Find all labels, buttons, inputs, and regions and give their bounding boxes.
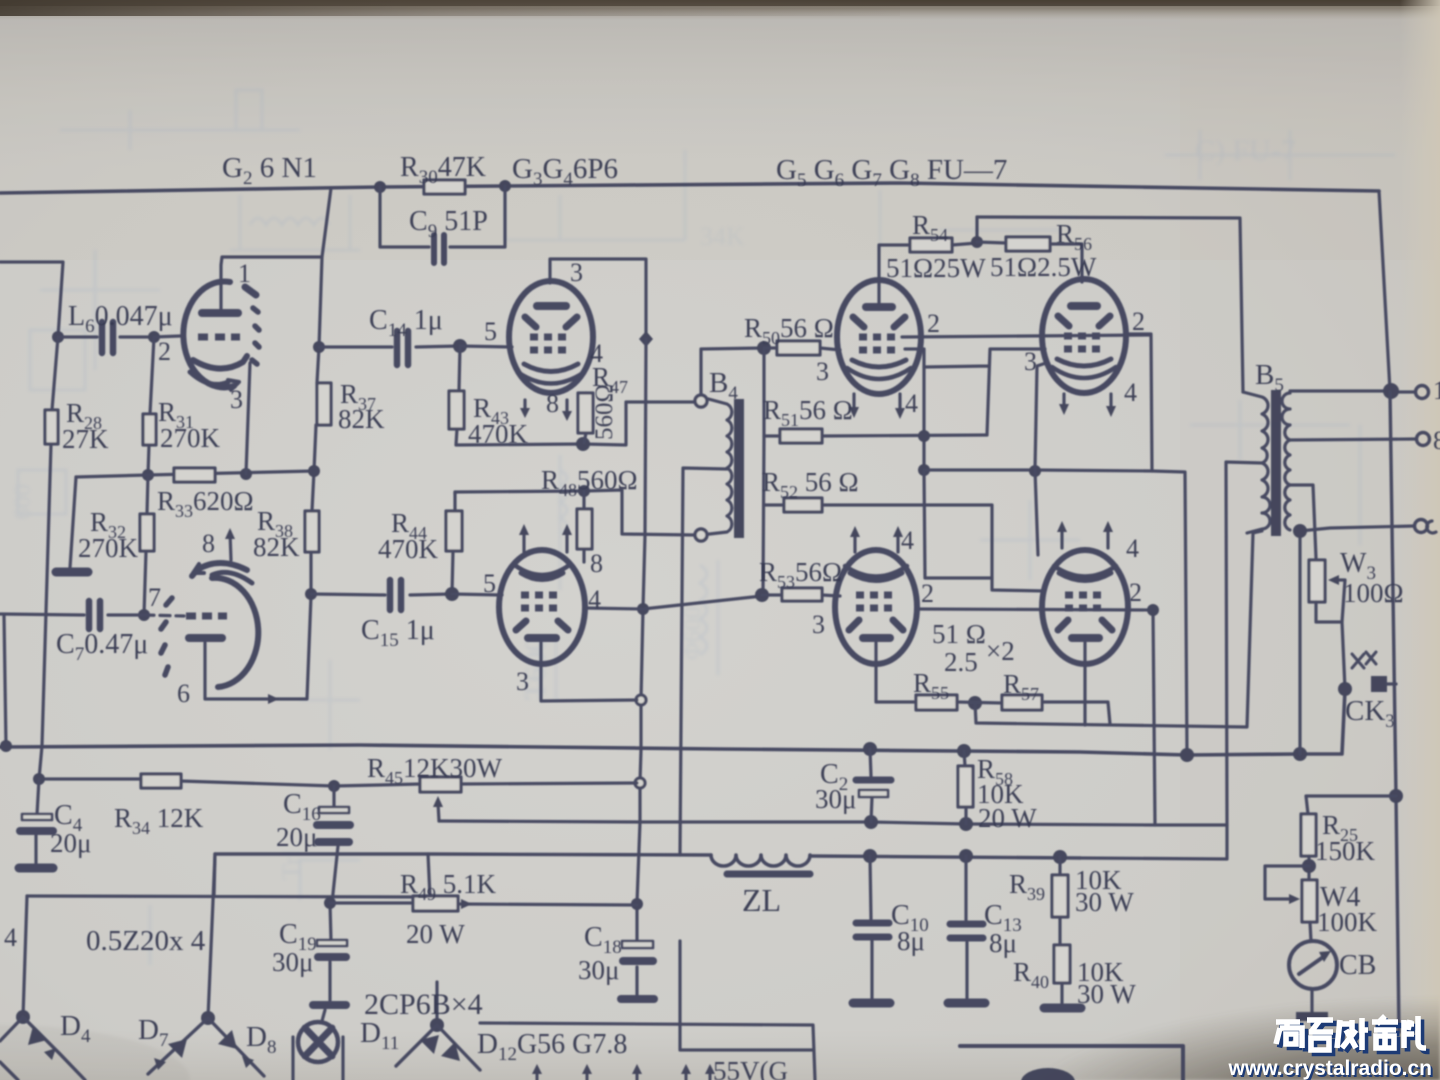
- svg-text:R5156 Ω: R5156 Ω: [763, 395, 853, 430]
- wire top HT bus: [0, 183, 1379, 193]
- svg-text:7: 7: [148, 583, 161, 612]
- svg-text:R49 5.1K: R49 5.1K: [400, 869, 497, 904]
- wire screen feed y218: [977, 217, 1243, 392]
- transformer B5 mid tap: [1226, 462, 1262, 825]
- resistor R50: [764, 348, 840, 350]
- node bus2b R58: [959, 817, 973, 831]
- node bus1 R58: [957, 744, 971, 758]
- wire R25 branch: [1306, 796, 1396, 814]
- node B5 output: [1383, 383, 1399, 399]
- node grid junction V1: [148, 331, 160, 343]
- svg-text:C15 1μ: C15 1μ: [361, 615, 435, 651]
- svg-text:1: 1: [238, 259, 251, 288]
- tube V6 FU-7: [1042, 550, 1128, 664]
- diode D11 node: [435, 982, 438, 1025]
- resistor R48: [582, 491, 585, 562]
- svg-text:2: 2: [921, 579, 934, 608]
- svg-text:2: 2: [1129, 578, 1142, 607]
- node B5 bottom tap: [1293, 524, 1307, 538]
- resistor R31: [143, 414, 156, 445]
- node L6 left junction: [52, 331, 64, 343]
- wire grid bus x765: [763, 348, 764, 595]
- wire V3 cathode leads with arrows: [854, 394, 900, 413]
- node bus1 C2: [863, 742, 877, 756]
- resistor R38: [305, 511, 319, 552]
- wire V3 screen drop x924: [905, 349, 924, 470]
- svg-text:27K: 27K: [62, 424, 109, 454]
- resistor R25: [1301, 814, 1316, 856]
- resistor R40: [1060, 983, 1063, 1003]
- ground C4: [19, 864, 53, 873]
- winding arrows bottom: [537, 1068, 710, 1080]
- node bus2b C2: [864, 815, 878, 829]
- wire bottom inner rail: [680, 941, 813, 1050]
- wire V1 plate lead and pin1 link: [221, 257, 322, 310]
- svg-text:3: 3: [816, 357, 829, 386]
- wire bias row with R33: [76, 471, 314, 477]
- svg-text:3: 3: [1024, 347, 1037, 376]
- resistor R55: [916, 695, 957, 710]
- wire rectifier top rail: [27, 854, 430, 897]
- wire bus3 HT rail: [215, 854, 1080, 858]
- svg-text:R52 56 Ω: R52 56 Ω: [762, 467, 859, 502]
- svg-text:3: 3: [812, 610, 825, 639]
- wire R28 chain down to bus2: [39, 337, 58, 779]
- svg-text:4: 4: [905, 389, 918, 418]
- node D7 D8: [201, 1011, 215, 1025]
- node V4 pin3 column junction: [1029, 465, 1041, 477]
- svg-text:2.5: 2.5: [944, 647, 978, 677]
- capacitor L6 0.047u: [58, 335, 154, 338]
- node small circle at V2b anode row: [636, 695, 646, 705]
- svg-text:8μ: 8μ: [989, 928, 1017, 958]
- svg-text:270K: 270K: [160, 423, 221, 453]
- svg-text:20μ: 20μ: [50, 828, 91, 858]
- lamp indicator: [298, 1022, 338, 1062]
- svg-text:8: 8: [202, 529, 215, 558]
- svg-text:8: 8: [546, 389, 559, 418]
- resistor R58: [964, 751, 966, 824]
- wire R44 R48 row: [455, 490, 695, 535]
- resistor R34: [141, 774, 181, 788]
- svg-text:51Ω2.5W: 51Ω2.5W: [990, 252, 1097, 282]
- wire V4 cathode leads with arrows: [1064, 394, 1111, 411]
- resistor R49: [413, 896, 458, 911]
- resistor R52: [764, 505, 1045, 591]
- svg-text:3: 3: [230, 385, 243, 414]
- transformer B5 primary winding: [1243, 392, 1270, 533]
- wire long B+ column x646: [637, 339, 646, 995]
- node junction at R30 right: [499, 180, 511, 192]
- transformer B5 core: [1271, 390, 1281, 536]
- wire B5 sec tap2 to terminal 8: [1290, 439, 1415, 440]
- node R31 bottom junction: [142, 469, 154, 481]
- node bus1 left: [0, 740, 12, 752]
- diode D7 branch: [148, 1018, 208, 1074]
- svg-text:30μ: 30μ: [815, 784, 856, 814]
- potentiometer W3: [1309, 560, 1325, 602]
- wire V2b grid: [452, 594, 502, 595]
- diode D fragment bottom left: [0, 1062, 18, 1080]
- capacitor C18 30u: [622, 941, 653, 948]
- svg-text:100K: 100K: [1317, 907, 1378, 937]
- wire bus2b wiper rail: [439, 821, 1227, 859]
- wire V6 pin2 drop: [1153, 610, 1155, 825]
- diode D11 branches: [396, 1025, 480, 1070]
- svg-text:30μ: 30μ: [272, 947, 313, 977]
- wire V4 pin3 column: [1035, 363, 1046, 555]
- tube V2 6P6: [509, 281, 593, 393]
- resistor R56: [977, 242, 1082, 282]
- capacitor C16 20u: [332, 786, 338, 903]
- svg-text:4: 4: [1126, 534, 1139, 563]
- svg-text:8μ: 8μ: [897, 926, 925, 956]
- tube V1b 6N1 lower triode: [161, 563, 258, 687]
- svg-text:www.crystalradio.cn: www.crystalradio.cn: [1228, 1057, 1432, 1080]
- svg-text:150K: 150K: [1315, 836, 1376, 866]
- wire rectifier mid drop: [208, 854, 215, 1018]
- svg-text:R33620Ω: R33620Ω: [157, 486, 254, 521]
- svg-text:G5 G6 G7 G8 FU—7: G5 G6 G7 G8 FU—7: [776, 154, 1007, 191]
- capacitor C13 8u: [966, 856, 967, 998]
- node ZL C10: [863, 849, 877, 863]
- wire rectifier left drop: [23, 896, 27, 1017]
- node C15 right junction: [445, 587, 459, 601]
- svg-text:30μ: 30μ: [578, 955, 619, 985]
- svg-text:2: 2: [158, 337, 171, 366]
- svg-text:4: 4: [588, 585, 601, 614]
- terminal 1: [1416, 386, 1429, 399]
- resistor R33: [174, 468, 215, 482]
- capacitor C9 loop: [380, 186, 505, 247]
- node C14 right junction: [453, 339, 467, 353]
- capacitor C19 30u: [322, 903, 331, 1021]
- wire V2b heater arrows: [524, 530, 567, 552]
- svg-text:8: 8: [590, 549, 603, 578]
- wire V5 V6 grid row: [917, 609, 1153, 610]
- svg-text:0.5Z20x 4: 0.5Z20x 4: [86, 925, 206, 957]
- wire B4 top to R50 node: [701, 348, 764, 395]
- terminal B4 bottom: [695, 529, 707, 541]
- wire R43 chain: [456, 346, 695, 445]
- svg-text:2: 2: [927, 309, 940, 338]
- node R48 top junction: [578, 485, 590, 497]
- resistor R39: [1058, 857, 1061, 945]
- resistor R47: [584, 393, 586, 443]
- node small circle R45 end: [635, 778, 645, 788]
- node R37 bottom: [308, 465, 320, 477]
- svg-text:R34 12K: R34 12K: [114, 803, 204, 838]
- wire R54 left lead: [879, 245, 910, 304]
- node ZL C13: [959, 849, 973, 863]
- node CK3 bottom: [1338, 682, 1352, 696]
- svg-text:6: 6: [177, 679, 190, 708]
- wire B5 sec tap3 to W3: [1290, 485, 1316, 558]
- node R25 W4 junction: [1302, 859, 1316, 873]
- wire V1b heater arrow pin8: [230, 532, 231, 560]
- tube V5 FU-7: [835, 550, 917, 664]
- svg-text:4: 4: [4, 923, 17, 952]
- wire V1 cathode down to node: [246, 363, 250, 474]
- node x924 R51 crossing: [918, 430, 930, 442]
- svg-text:30 W: 30 W: [1075, 887, 1134, 917]
- svg-text:560Ω: 560Ω: [591, 384, 618, 440]
- svg-text:3: 3: [570, 258, 583, 287]
- watermark: [1228, 1016, 1434, 1080]
- node ZL R39: [1053, 850, 1067, 864]
- svg-text:55V(G: 55V(G: [713, 1056, 788, 1080]
- svg-text:C14 1μ: C14 1μ: [369, 305, 443, 341]
- svg-text:C) FU-7: C) FU-7: [1195, 134, 1296, 167]
- capacitor C7 0.47u: [0, 614, 144, 615]
- node bus1 B5 tap: [1293, 747, 1307, 761]
- svg-text:20μ: 20μ: [276, 822, 317, 852]
- wire V5 anode to R55: [876, 643, 916, 702]
- node R54 R56 junction: [971, 236, 983, 248]
- node C19 top: [324, 897, 336, 909]
- resistor R32: [140, 514, 154, 551]
- resistor R37: [317, 383, 331, 425]
- wire right edge vertical from bus: [1379, 191, 1390, 391]
- ground C13: [948, 999, 985, 1008]
- ground R40: [1044, 1004, 1081, 1013]
- svg-text:CB: CB: [1339, 950, 1376, 981]
- wire V2 top loop: [550, 259, 646, 339]
- wire V2 pin8 short arrows: [525, 400, 567, 416]
- capacitor C14 1u: [319, 346, 460, 347]
- wire V6 anode: [1083, 643, 1086, 725]
- watermark logo glyphs: [1276, 1016, 1426, 1050]
- wire left input corner: [0, 262, 63, 337]
- svg-text:R5356Ω: R5356Ω: [759, 557, 842, 592]
- svg-text:4: 4: [1124, 378, 1137, 407]
- node R55 R57 junction: [968, 696, 982, 710]
- node C7 junction: [138, 609, 150, 621]
- wire V1 grid lead: [154, 336, 180, 337]
- wire bus2 R34 R45 row: [39, 779, 637, 786]
- wire B5 sec bottom tap: [1300, 526, 1414, 754]
- wire V4 pin2: [1126, 334, 1152, 471]
- svg-text:3: 3: [516, 667, 529, 696]
- svg-text:R5056 Ω: R5056 Ω: [744, 313, 834, 348]
- node R25 tap: [1389, 789, 1403, 803]
- transformer B5 secondary winding: [1282, 393, 1290, 530]
- svg-text:ZL: ZL: [742, 882, 781, 918]
- node R50 junction: [757, 341, 771, 355]
- terminal B4 top: [695, 395, 707, 407]
- wire right HT vertical: [1390, 392, 1399, 1032]
- node junction at R30 left: [374, 181, 386, 193]
- terminal out lower: [1415, 520, 1428, 533]
- wire V1b grid lead: [144, 615, 184, 616]
- wire R45 wiper arrow: [438, 803, 439, 821]
- watermark logo glyphs shadow: [1280, 1020, 1430, 1054]
- svg-text:82K: 82K: [253, 532, 300, 562]
- svg-text:34K: 34K: [700, 222, 745, 251]
- transformer B4 core: [734, 399, 744, 538]
- diode D8 branch: [208, 1018, 264, 1076]
- wire long vertical with R37 R38: [311, 188, 331, 594]
- capacitor C2 30u: [870, 749, 872, 822]
- node C16 top: [328, 780, 340, 792]
- svg-text:470K: 470K: [468, 419, 529, 449]
- svg-text:51Ω25W: 51Ω25W: [886, 253, 986, 283]
- wire V6 heater arrows: [1062, 527, 1108, 548]
- wire R49 row: [330, 903, 637, 905]
- svg-text:20 W: 20 W: [406, 919, 465, 949]
- svg-text:G2 6 N1: G2 6 N1: [222, 152, 317, 189]
- switch CK3: [1352, 652, 1376, 668]
- wire to ground left: [70, 477, 76, 568]
- power transformer box bottom right: [960, 1046, 1183, 1080]
- resistor R53: [762, 595, 840, 596]
- tube V4 FU-7: [1042, 279, 1126, 393]
- svg-text:1: 1: [1433, 376, 1440, 405]
- tube V3 FU-7: [837, 280, 921, 394]
- wire R31 chain: [148, 337, 154, 475]
- svg-text:L60.047μ: L60.047μ: [68, 301, 173, 337]
- transformer B4 centre tap: [680, 468, 727, 855]
- resistor R43: [449, 391, 464, 429]
- diode D4 branches: [0, 1017, 85, 1080]
- svg-text:Φ600: Φ600: [680, 606, 706, 660]
- svg-text:R3047K: R3047K: [400, 152, 486, 188]
- resistor R54: [910, 238, 952, 252]
- wire V3 pin2 long grid row: [902, 335, 1150, 337]
- resistor R57: [957, 702, 1110, 724]
- wire W3 bottom: [1316, 602, 1345, 689]
- svg-text:30 W: 30 W: [1077, 979, 1136, 1009]
- ghost show-through layer: [10, 90, 1395, 965]
- node diamond V2 output: [639, 331, 653, 347]
- svg-text:5: 5: [484, 317, 497, 346]
- svg-text:8: 8: [1433, 426, 1440, 455]
- wire V2b pin4 row to R53 node: [585, 596, 762, 609]
- tube V2b 6P6: [499, 550, 585, 664]
- node V6 pin2: [1147, 604, 1159, 616]
- wire R32 chain: [144, 475, 148, 615]
- wire B5 sec tap1 to terminal 1: [1290, 391, 1414, 392]
- wire feedback row y724: [975, 531, 1262, 727]
- svg-text:600: 600: [10, 484, 36, 520]
- node R49 C18 junction: [631, 898, 643, 910]
- resistor R28: [45, 410, 58, 444]
- svg-text:C9 51P: C9 51P: [409, 206, 488, 242]
- capacitor C4 20u: [36, 779, 39, 864]
- node bus1 x1187: [1180, 748, 1194, 762]
- capacitor C15 1u: [311, 594, 452, 595]
- node R33 right junction: [240, 468, 252, 480]
- choke ZL: [711, 855, 810, 866]
- tube V1 6N1 upper triode: [183, 281, 259, 390]
- wire V1b anode to R38 node: [205, 596, 311, 699]
- node R53 junction: [755, 588, 769, 602]
- wire V2b anode: [541, 643, 637, 701]
- wire bus470: [924, 470, 1187, 755]
- wire bottom rail to transformer: [480, 1023, 815, 1080]
- node V2b plate junction: [637, 603, 649, 615]
- svg-text:470K: 470K: [378, 534, 439, 564]
- resistor R45: [420, 777, 461, 792]
- svg-text:C70.47μ: C70.47μ: [56, 629, 148, 665]
- resistor R30: [424, 180, 465, 194]
- resistor R51: [764, 435, 987, 436]
- svg-text:2: 2: [1132, 307, 1145, 336]
- svg-text:51 Ω: 51 Ω: [932, 619, 986, 649]
- potentiometer W4: [1302, 880, 1317, 922]
- node D4: [16, 1010, 30, 1024]
- potentiometer W4 wiper loop: [1265, 866, 1309, 899]
- node C14 branch: [313, 341, 325, 353]
- node bus2 left: [33, 773, 45, 785]
- svg-text:20 W: 20 W: [978, 803, 1037, 833]
- meter CB: [1289, 941, 1337, 989]
- wire x924 down to V5 row: [924, 470, 992, 578]
- svg-text:2CP6B×4: 2CP6B×4: [364, 988, 483, 1021]
- wire left edge to bus1: [4, 615, 6, 746]
- node x924 bus470: [918, 464, 930, 476]
- svg-text:100Ω: 100Ω: [1343, 578, 1404, 608]
- resistor R44: [452, 492, 455, 594]
- node R38 bottom / C15: [305, 588, 317, 600]
- svg-text:4: 4: [901, 526, 914, 555]
- capacitor C10 8u: [870, 856, 872, 1000]
- wire grid V2: [460, 346, 512, 347]
- terminal 8: [1417, 433, 1430, 446]
- node R43 R47 bottom junction: [576, 437, 590, 451]
- svg-text:5: 5: [483, 569, 496, 598]
- svg-text:×2: ×2: [986, 636, 1015, 666]
- wire V5 heater arrows: [855, 532, 898, 552]
- wire R51 up loop to V4 pin3: [924, 349, 1045, 435]
- svg-text:82K: 82K: [338, 404, 385, 434]
- svg-text:R48560Ω: R48560Ω: [541, 465, 638, 500]
- svg-text:270K: 270K: [78, 533, 139, 563]
- wire bus1 ground rail: [0, 690, 1345, 755]
- transformer B4 primary winding: [701, 397, 732, 535]
- ground bar under R32 area: [56, 568, 88, 577]
- ground C10: [853, 999, 890, 1008]
